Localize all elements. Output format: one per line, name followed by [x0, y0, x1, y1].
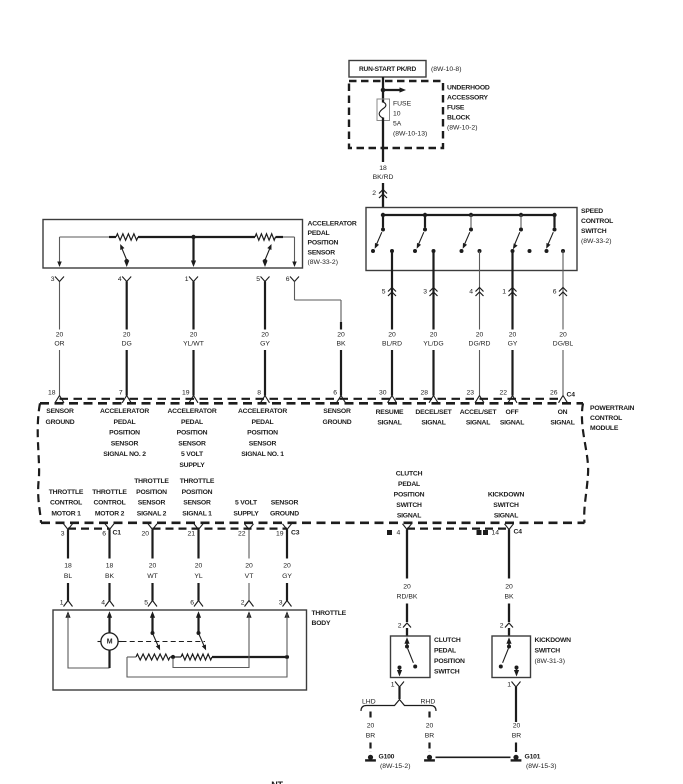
fuse block labels: [447, 85, 490, 132]
svg-text:20: 20: [430, 331, 438, 338]
svg-text:20: 20: [56, 331, 64, 338]
switch S2 bus junction: [423, 213, 427, 217]
throttle body box: [53, 610, 307, 690]
TPS wiper 2 pivot: [197, 631, 201, 635]
svg-text:5: 5: [256, 276, 260, 283]
svg-text:3: 3: [423, 289, 427, 296]
switch S1 top contact: [381, 228, 385, 232]
switch S5 wiper (open): [544, 232, 553, 250]
svg-text:5 VOLT: 5 VOLT: [181, 451, 204, 458]
wire label 20 DG: [122, 331, 132, 347]
svg-text:G101: G101: [525, 753, 541, 760]
wire 20 GY from APPS pin 5 to PCM pin 8: [264, 282, 266, 396]
wire label 20 GY: [282, 563, 292, 580]
svg-text:SENSOR: SENSOR: [111, 440, 139, 447]
wire label 20 WT: [147, 563, 158, 580]
kickdown switch entry arrow: [506, 637, 511, 645]
svg-text:SWITCH: SWITCH: [493, 502, 519, 509]
svg-text:YL/WT: YL/WT: [183, 341, 204, 348]
svg-text:6: 6: [553, 289, 557, 296]
svg-text:6: 6: [333, 389, 337, 396]
svg-text:20: 20: [476, 331, 484, 338]
clutch switch top contact: [405, 645, 409, 649]
wire label 20 YL: [194, 563, 203, 580]
PCM right boundary (dashed): [582, 403, 588, 523]
wire label 20 DG/RD: [469, 331, 491, 347]
mechanical link (dashed): [122, 641, 206, 643]
throttle body pin 1 connector: [60, 600, 73, 607]
ground (RHD): [427, 755, 432, 760]
svg-text:3: 3: [51, 276, 55, 283]
svg-text:SENSOR: SENSOR: [308, 249, 336, 256]
svg-text:POSITION: POSITION: [136, 489, 167, 496]
wire 20 DG/RD from speed switch pin 4 to PCM pin 23: [479, 251, 481, 396]
svg-text:5 VOLT: 5 VOLT: [235, 500, 258, 507]
connector pin 4: [469, 288, 483, 297]
svg-text:20: 20: [195, 563, 203, 570]
PCM pin 21 (bottom): [187, 524, 203, 538]
svg-text:LHD: LHD: [362, 698, 376, 705]
svg-text:KICKDOWN: KICKDOWN: [535, 637, 572, 644]
svg-text:1: 1: [502, 289, 506, 296]
svg-text:8: 8: [257, 389, 261, 396]
PCM pin 8: [257, 389, 269, 403]
svg-text:RHD: RHD: [421, 698, 436, 705]
wire label 18 BK: [105, 563, 115, 580]
svg-text:SIGNAL NO. 1: SIGNAL NO. 1: [241, 451, 284, 458]
svg-text:6: 6: [190, 600, 194, 607]
svg-text:PEDAL: PEDAL: [252, 419, 274, 426]
svg-text:BK: BK: [336, 341, 346, 348]
switch S5 top contact: [553, 228, 557, 232]
switch S3 open contact: [460, 249, 464, 253]
svg-text:BK: BK: [105, 573, 115, 580]
switch S1 stub: [382, 215, 384, 228]
svg-text:SUPPLY: SUPPLY: [179, 462, 205, 469]
svg-text:G100: G100: [379, 753, 395, 760]
PCM pin 20 (bottom): [141, 524, 157, 538]
svg-text:(8W-10-8): (8W-10-8): [431, 66, 461, 73]
PCM pin 18: [48, 389, 64, 403]
svg-text:28: 28: [420, 389, 428, 396]
TPS wiper 1 feed (pin 5): [151, 614, 153, 632]
wire label 20 BR (kickdown ground): [512, 723, 522, 740]
svg-text:DECEL/SET: DECEL/SET: [415, 409, 452, 416]
clutch switch pin 1 connector: [391, 682, 404, 700]
switch S5 bus junction: [552, 213, 556, 217]
svg-text:2: 2: [398, 623, 402, 630]
svg-text:UNDERHOOD: UNDERHOOD: [447, 85, 490, 92]
resistor R-A (pot 1 element): [116, 234, 138, 240]
clutch switch wiper (open): [408, 648, 418, 668]
throttle body pin 4 connector: [101, 600, 114, 607]
svg-text:BR: BR: [366, 733, 376, 740]
switch S1 open contact: [371, 249, 375, 253]
svg-text:SWITCH: SWITCH: [535, 647, 561, 654]
svg-text:POSITION: POSITION: [308, 240, 339, 247]
svg-text:YL/DG: YL/DG: [423, 341, 443, 348]
svg-text:(8W-15-2): (8W-15-2): [380, 763, 410, 770]
PCM connector C4 strip (bottom): [407, 527, 509, 529]
svg-text:SIGNAL: SIGNAL: [421, 419, 445, 426]
wire 20 WT from PCM pin 20 to throttle body pin 5: [151, 530, 153, 601]
wire label 20 BL/RD: [382, 331, 402, 347]
TPS resistor R1: [127, 654, 173, 660]
svg-text:M: M: [107, 638, 113, 645]
svg-text:BR: BR: [425, 733, 435, 740]
svg-text:POWERTRAIN: POWERTRAIN: [590, 405, 635, 412]
APPS pin 1 connector: [185, 276, 198, 283]
svg-text:2: 2: [241, 600, 245, 607]
svg-text:RD/BK: RD/BK: [397, 593, 418, 600]
svg-text:23: 23: [466, 389, 474, 396]
svg-text:C3: C3: [291, 530, 300, 537]
svg-text:BK/RD: BK/RD: [373, 174, 394, 181]
svg-text:C4: C4: [514, 528, 523, 535]
TPS wiper 1 pivot: [151, 631, 155, 635]
svg-text:SIGNAL: SIGNAL: [500, 419, 524, 426]
feed arrow to other circuits: [383, 87, 406, 92]
svg-text:DG/BL: DG/BL: [553, 341, 574, 348]
throttle body pin entry arrow: [107, 611, 112, 618]
svg-text:SIGNAL: SIGNAL: [397, 513, 421, 520]
throttle body pin entry arrow: [196, 611, 201, 618]
R2 output lead to node B: [212, 656, 287, 658]
svg-text:SENSOR: SENSOR: [138, 500, 166, 507]
svg-text:SIGNAL NO. 2: SIGNAL NO. 2: [103, 451, 146, 458]
switch S5 output contact: [561, 249, 565, 253]
wire 20 DG/BL from speed switch pin 6 to PCM pin 26: [562, 251, 564, 396]
svg-text:(8W-15-3): (8W-15-3): [526, 763, 556, 770]
pot track left segment: [60, 236, 110, 238]
svg-text:PEDAL: PEDAL: [114, 419, 136, 426]
svg-text:ACCELERATOR: ACCELERATOR: [167, 408, 216, 415]
track mid segment: [138, 236, 255, 238]
APPS pin 3 connector: [51, 276, 64, 283]
svg-text:POSITION: POSITION: [247, 430, 278, 437]
kickdown switch pin 2 connector: [500, 623, 513, 630]
svg-text:20: 20: [149, 563, 157, 570]
kickdown switch box: [492, 636, 531, 678]
PCM pin 6: [333, 350, 345, 403]
node A (R1/R2 junction): [171, 655, 175, 659]
clutch switch pin 2 connector: [398, 623, 411, 630]
switch S2 stub: [424, 215, 426, 228]
svg-text:BK: BK: [504, 593, 514, 600]
svg-text:7: 7: [119, 389, 123, 396]
wire 20 VT from PCM pin 22 to throttle body pin 2: [248, 530, 250, 601]
PCM pin 4 (C4 bottom): [387, 524, 412, 537]
switch S4 unused contact: [528, 249, 532, 253]
svg-text:ACCELERATOR: ACCELERATOR: [308, 221, 357, 228]
svg-text:DG: DG: [122, 341, 132, 348]
wire label 20 VT: [245, 563, 254, 580]
node B (sensor ground node): [285, 655, 289, 659]
svg-text:2: 2: [500, 623, 504, 630]
svg-text:BR: BR: [512, 733, 522, 740]
throttle body pin 2 connector: [241, 600, 254, 607]
svg-text:18: 18: [48, 389, 56, 396]
svg-text:CLUTCH: CLUTCH: [434, 637, 461, 644]
TPS wiper 1 arm: [153, 635, 162, 652]
wire 20 DG from APPS pin 4 to PCM pin 7: [126, 282, 128, 396]
PCM connector C1 strip (bottom): [68, 527, 110, 529]
throttle body pin entry arrow: [65, 611, 70, 618]
svg-text:GY: GY: [260, 341, 270, 348]
switch common bus: [383, 214, 555, 216]
svg-text:SWITCH: SWITCH: [396, 502, 422, 509]
wire label 18 BL: [64, 563, 73, 580]
svg-text:(8W-10-13): (8W-10-13): [393, 131, 427, 138]
svg-text:BLOCK: BLOCK: [447, 115, 470, 122]
svg-text:OFF: OFF: [506, 409, 519, 416]
kickdown switch wiper (open): [499, 648, 509, 668]
svg-text:CLUTCH: CLUTCH: [396, 471, 423, 478]
svg-text:5A: 5A: [393, 121, 402, 128]
throttle motor M1: [98, 633, 122, 650]
svg-text:10: 10: [393, 111, 401, 118]
kickdown ground lead: [515, 743, 517, 753]
switch S2 open contact: [413, 249, 417, 253]
svg-text:SIGNAL: SIGNAL: [550, 419, 574, 426]
svg-text:19: 19: [182, 389, 190, 396]
throttle body pin entry arrow: [284, 611, 289, 618]
wire 20 BK from PCM pin 14 to kickdown switch: [508, 530, 510, 637]
svg-text:GY: GY: [508, 341, 518, 348]
wire 20 GY from PCM pin 19 to throttle body pin 3: [286, 530, 288, 601]
svg-text:3: 3: [279, 600, 283, 607]
svg-text:PEDAL: PEDAL: [181, 419, 203, 426]
svg-text:RESUME: RESUME: [376, 409, 404, 416]
motor M lead from pin 4: [108, 614, 110, 633]
switch S4 wiper (closed to output): [511, 232, 520, 250]
svg-text:WT: WT: [147, 573, 158, 580]
svg-text:GROUND: GROUND: [323, 419, 352, 426]
pin 6 lead (track end): [292, 237, 297, 267]
svg-text:DG/RD: DG/RD: [469, 341, 491, 348]
svg-text:18: 18: [106, 563, 114, 570]
PCM pin 3 (bottom): [61, 524, 73, 538]
svg-text:1: 1: [185, 276, 189, 283]
wire pin 2 to node A (5 volt): [173, 614, 249, 668]
PCM pin 26: [550, 389, 568, 403]
throttle body pin entry arrow: [246, 611, 251, 618]
svg-text:20: 20: [509, 331, 517, 338]
switch S5 open contact: [545, 249, 549, 253]
wire label 20 GY: [508, 331, 518, 347]
svg-text:20: 20: [283, 563, 291, 570]
svg-text:SENSOR: SENSOR: [46, 408, 74, 415]
svg-text:GY: GY: [282, 573, 292, 580]
pot 1 wiper: [118, 243, 129, 267]
svg-text:4: 4: [397, 529, 401, 536]
node RUN-START PK/RD feed box: [349, 61, 426, 78]
svg-text:BODY: BODY: [312, 620, 331, 627]
svg-text:1: 1: [391, 682, 395, 689]
wire label 20 GY: [260, 331, 270, 347]
wire 20 YL/DG from speed switch pin 3 to PCM pin 28: [432, 251, 434, 396]
wire label 20 OR: [54, 331, 64, 347]
wire RHD ground to G101: [436, 756, 511, 758]
svg-text:20: 20: [403, 584, 411, 591]
svg-text:NT: NT: [271, 780, 283, 784]
switch S3 stub: [470, 215, 472, 228]
PCM connector C3 strip (bottom): [153, 527, 288, 529]
svg-text:19: 19: [276, 530, 284, 537]
svg-text:VT: VT: [245, 573, 254, 580]
junction node in fuse block: [381, 88, 386, 93]
svg-text:5: 5: [144, 600, 148, 607]
RHD ground wire 20 BR: [425, 712, 435, 753]
fuse F10 5A: [377, 99, 390, 121]
accelerator pedal position sensor box: [43, 220, 303, 269]
svg-text:20: 20: [513, 723, 521, 730]
switch S3 output contact: [478, 249, 482, 253]
wire 20 GY from speed switch pin 1 to PCM pin 22: [511, 251, 513, 396]
wire from RUN-START into fuse block: [382, 77, 384, 103]
svg-text:3: 3: [61, 530, 65, 537]
svg-text:SWITCH: SWITCH: [581, 228, 607, 235]
svg-text:20: 20: [367, 723, 375, 730]
kickdown switch output contact: [514, 666, 519, 677]
svg-text:MOTOR 2: MOTOR 2: [95, 511, 125, 518]
clutch switch output contact: [397, 666, 402, 677]
connector pin 6: [553, 288, 567, 297]
PCM top boundary (dashed): [40, 402, 583, 405]
svg-text:2: 2: [372, 190, 376, 197]
wire label 20 YL/WT: [183, 331, 204, 347]
svg-text:GROUND: GROUND: [270, 511, 299, 518]
svg-text:20: 20: [141, 530, 149, 537]
throttle body pin 3 connector: [279, 600, 292, 607]
svg-text:ACCEL/SET: ACCEL/SET: [460, 409, 498, 416]
svg-text:FUSE: FUSE: [447, 105, 465, 112]
svg-text:THROTTLE: THROTTLE: [49, 489, 84, 496]
svg-text:(8W-10-2): (8W-10-2): [447, 125, 477, 132]
wire 20 BK from APPS pin 6 to PCM pin 6: [286, 276, 341, 330]
node: 5V feed junction pin 1: [191, 235, 195, 239]
wire 20 YL/WT from APPS pin 1 to PCM pin 19: [192, 282, 194, 396]
svg-text:26: 26: [550, 389, 558, 396]
svg-text:ACCELERATOR: ACCELERATOR: [238, 408, 287, 415]
clutch switch entry arrow: [404, 637, 409, 645]
svg-text:ACCESSORY: ACCESSORY: [447, 95, 489, 102]
svg-text:RUN-START PK/RD: RUN-START PK/RD: [359, 66, 416, 73]
throttle body pin 5 connector: [144, 600, 157, 607]
svg-text:4: 4: [469, 289, 473, 296]
LHD/RHD variant brace: [361, 700, 436, 712]
svg-text:SIGNAL 1: SIGNAL 1: [182, 511, 212, 518]
svg-text:(8W-33-2): (8W-33-2): [308, 259, 338, 266]
svg-text:6: 6: [102, 530, 106, 537]
pot track: [109, 236, 116, 238]
wire pin 3 to node B (sensor ground): [286, 614, 288, 656]
PCM pin 28: [420, 389, 438, 403]
fuse value labels: [393, 101, 427, 138]
svg-text:CONTROL: CONTROL: [50, 500, 82, 507]
PCM pin 7: [119, 389, 131, 403]
svg-text:20: 20: [559, 331, 567, 338]
svg-text:SENSOR: SENSOR: [183, 500, 211, 507]
svg-text:1: 1: [60, 600, 64, 607]
svg-text:ON: ON: [558, 409, 568, 416]
in-line connector 2: [372, 190, 387, 199]
wire 18 BL from PCM pin 3 to throttle body pin 1: [67, 530, 69, 601]
svg-text:1: 1: [507, 682, 511, 689]
pin 3 lead (track end): [57, 237, 62, 267]
switch S4 bus junction: [519, 213, 523, 217]
pot 2 wiper: [262, 243, 273, 267]
switch S1 wiper (open): [373, 232, 382, 250]
switch S2 output contact: [432, 249, 436, 253]
svg-text:PEDAL: PEDAL: [434, 647, 456, 654]
svg-text:20: 20: [426, 723, 434, 730]
svg-text:C4: C4: [567, 391, 576, 398]
svg-text:SENSOR: SENSOR: [178, 440, 206, 447]
switch S1 output contact: [390, 249, 394, 253]
svg-text:PEDAL: PEDAL: [308, 230, 330, 237]
APPS pin 4 connector: [118, 276, 131, 283]
switch S2 top contact: [423, 228, 427, 232]
wire fuse to speed control switch, 18 BK/RD: [382, 118, 384, 209]
PCM pin 22: [499, 389, 517, 403]
connector pin 1: [502, 288, 516, 297]
wire 20 RD/BK from PCM pin 4 to clutch switch: [406, 530, 408, 637]
svg-text:18: 18: [64, 563, 72, 570]
throttle body pin 6 connector: [190, 600, 203, 607]
wire 18 BK from PCM pin 6 to throttle body pin 4: [108, 530, 110, 601]
wire label 20 BK (kickdown): [504, 584, 514, 601]
connector pin 5: [382, 288, 396, 297]
svg-text:MODULE: MODULE: [590, 425, 619, 432]
svg-text:C1: C1: [113, 530, 122, 537]
svg-text:BL: BL: [64, 573, 73, 580]
LHD ground wire 20 BR: [366, 712, 376, 753]
svg-text:SIGNAL: SIGNAL: [466, 419, 490, 426]
svg-text:SPEED: SPEED: [581, 208, 603, 215]
svg-text:30: 30: [379, 389, 387, 396]
APPS pin 5 connector: [256, 276, 269, 283]
ground G100: [365, 753, 410, 770]
switch S4 output contact: [511, 249, 515, 253]
svg-text:22: 22: [238, 530, 246, 537]
motor M lower lead: [108, 650, 110, 668]
clutch pedal position switch box: [391, 636, 431, 678]
svg-text:SENSOR: SENSOR: [323, 408, 351, 415]
svg-text:POSITION: POSITION: [109, 430, 140, 437]
svg-text:20: 20: [123, 331, 131, 338]
switch S3 wiper (open): [461, 232, 470, 250]
svg-text:PEDAL: PEDAL: [398, 481, 420, 488]
PCM pin 19: [182, 389, 198, 403]
svg-text:SIGNAL: SIGNAL: [494, 513, 518, 520]
svg-text:THROTTLE: THROTTLE: [92, 489, 127, 496]
return loop node B to R1 left end: [127, 657, 287, 677]
svg-text:20: 20: [261, 331, 269, 338]
underhood accessory fuse block (dashed box): [349, 81, 443, 148]
speed control switch labels: [581, 208, 613, 245]
svg-text:4: 4: [118, 276, 122, 283]
svg-text:SWITCH: SWITCH: [434, 668, 460, 675]
kickdown switch labels: [535, 637, 572, 665]
connector pin 3: [423, 288, 437, 297]
switch S3 top contact: [469, 228, 473, 232]
svg-text:THROTTLE: THROTTLE: [312, 610, 347, 617]
svg-text:MOTOR 1: MOTOR 1: [51, 511, 81, 518]
wire pin1 to motor (inside throttle body): [68, 614, 110, 668]
svg-text:BL/RD: BL/RD: [382, 341, 402, 348]
svg-text:YL: YL: [194, 573, 203, 580]
